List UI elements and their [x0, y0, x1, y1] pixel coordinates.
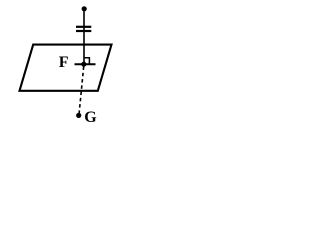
svg-text:F: F: [59, 54, 69, 71]
right angle mark at F: [84, 58, 89, 65]
point G dot: [76, 113, 81, 118]
point: top endpoint dot: [82, 6, 87, 11]
segment: horizontal line through F: [75, 63, 96, 65]
segment: vertical line from top point down to F: [83, 9, 85, 65]
dashed segment F to G: [79, 67, 84, 114]
plane (parallelogram): [20, 45, 112, 91]
congruence tick mark lower: [76, 30, 91, 32]
congruence tick mark upper: [76, 26, 91, 28]
point F dot: [81, 62, 86, 67]
svg-text:G: G: [84, 109, 97, 126]
